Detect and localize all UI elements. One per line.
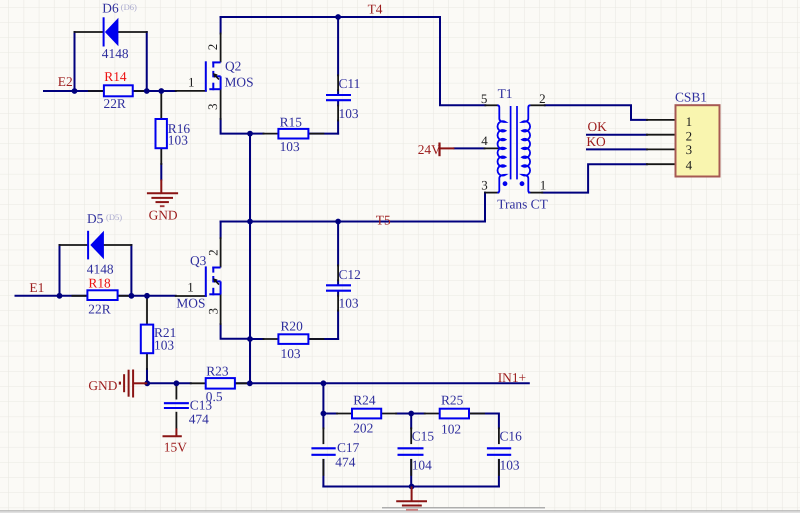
svg-text:C11: C11 <box>339 76 361 91</box>
svg-text:474: 474 <box>189 411 209 426</box>
svg-text:1: 1 <box>540 178 547 193</box>
svg-text:R23: R23 <box>206 363 229 378</box>
svg-text:4148: 4148 <box>87 261 114 276</box>
svg-text:2: 2 <box>539 91 546 106</box>
svg-text:104: 104 <box>412 457 432 472</box>
svg-text:103: 103 <box>168 132 188 147</box>
svg-text:474: 474 <box>335 455 355 470</box>
svg-text:KO: KO <box>586 134 606 149</box>
svg-text:4148: 4148 <box>102 46 129 61</box>
svg-text:5: 5 <box>481 91 488 106</box>
svg-text:103: 103 <box>500 457 520 472</box>
svg-text:(D6): (D6) <box>121 2 137 12</box>
svg-text:D6: D6 <box>102 1 119 16</box>
svg-text:202: 202 <box>353 421 373 436</box>
svg-text:3: 3 <box>205 104 220 111</box>
svg-text:GND: GND <box>149 207 178 222</box>
svg-text:103: 103 <box>154 338 174 353</box>
svg-text:Trans CT: Trans CT <box>497 197 547 212</box>
svg-text:MOS: MOS <box>225 75 254 90</box>
svg-text:2: 2 <box>205 249 220 256</box>
svg-text:(D5): (D5) <box>106 212 122 222</box>
svg-text:1: 1 <box>187 279 194 294</box>
svg-text:22R: 22R <box>104 96 126 111</box>
svg-text:103: 103 <box>339 296 359 311</box>
svg-text:R15: R15 <box>280 114 303 129</box>
svg-text:102: 102 <box>441 422 461 437</box>
svg-text:D5: D5 <box>87 211 104 226</box>
svg-text:1: 1 <box>188 74 195 89</box>
svg-text:E2: E2 <box>58 74 73 89</box>
svg-text:IN1+: IN1+ <box>498 370 526 385</box>
svg-text:MOS: MOS <box>176 296 205 311</box>
svg-text:3: 3 <box>481 178 488 193</box>
svg-text:R18: R18 <box>88 276 111 291</box>
svg-text:103: 103 <box>280 139 300 154</box>
svg-text:15V: 15V <box>164 440 187 455</box>
svg-text:R20: R20 <box>281 319 304 334</box>
svg-text:CSB1: CSB1 <box>675 90 707 105</box>
svg-text:T4: T4 <box>368 1 383 16</box>
svg-text:OK: OK <box>588 119 608 134</box>
svg-text:R25: R25 <box>441 392 464 407</box>
svg-text:Q3: Q3 <box>190 253 207 268</box>
svg-text:C15: C15 <box>412 429 435 444</box>
svg-text:103: 103 <box>281 346 301 361</box>
svg-text:C16: C16 <box>500 429 523 444</box>
svg-text:T5: T5 <box>376 212 391 227</box>
svg-text:103: 103 <box>339 106 359 121</box>
svg-text:3: 3 <box>205 308 220 315</box>
svg-text:T1: T1 <box>498 86 513 101</box>
svg-text:C13: C13 <box>190 398 213 413</box>
svg-text:24V: 24V <box>418 142 441 157</box>
svg-text:R14: R14 <box>104 69 127 84</box>
svg-text:4: 4 <box>686 158 693 173</box>
svg-text:22R: 22R <box>88 301 110 316</box>
svg-text:1: 1 <box>686 114 693 129</box>
svg-text:GND: GND <box>88 378 117 393</box>
svg-text:Q2: Q2 <box>225 58 241 73</box>
svg-text:C12: C12 <box>339 267 361 282</box>
svg-text:E1: E1 <box>29 280 44 295</box>
svg-text:2: 2 <box>205 44 220 51</box>
svg-text:C17: C17 <box>337 440 360 455</box>
svg-text:R24: R24 <box>353 392 376 407</box>
svg-text:3: 3 <box>686 142 693 157</box>
svg-text:4: 4 <box>481 133 488 148</box>
